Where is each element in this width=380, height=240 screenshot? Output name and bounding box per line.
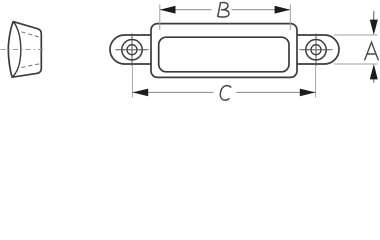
A extension line top <box>334 34 378 36</box>
label B <box>218 3 229 17</box>
B arrow right <box>275 6 291 14</box>
slot <box>159 37 289 72</box>
C dimension line <box>133 91 316 93</box>
C arrow left <box>132 89 148 97</box>
C extension line right <box>315 67 317 98</box>
boss <box>151 24 297 78</box>
B arrow left <box>160 6 176 14</box>
side view centerline <box>1 49 47 51</box>
side view hidden line bottom <box>22 64 41 68</box>
right hole <box>306 40 326 60</box>
C extension line left <box>131 67 133 98</box>
side view rim curve <box>12 22 21 78</box>
left hole <box>122 40 142 60</box>
label A <box>365 42 378 60</box>
label C <box>220 86 230 101</box>
B extension line right <box>289 5 291 31</box>
C arrow right <box>300 89 316 97</box>
B extension line left <box>159 5 161 31</box>
side view hidden line top <box>22 32 41 38</box>
side view outline <box>8 22 41 78</box>
left hole crosshair <box>116 34 149 67</box>
right tab <box>297 35 339 64</box>
A arrow bottom <box>373 78 375 83</box>
right hole crosshair <box>300 34 333 67</box>
A arrow top <box>373 11 375 21</box>
A extension line bottom <box>334 63 378 65</box>
B dimension line <box>160 9 290 11</box>
left tab <box>110 35 151 64</box>
